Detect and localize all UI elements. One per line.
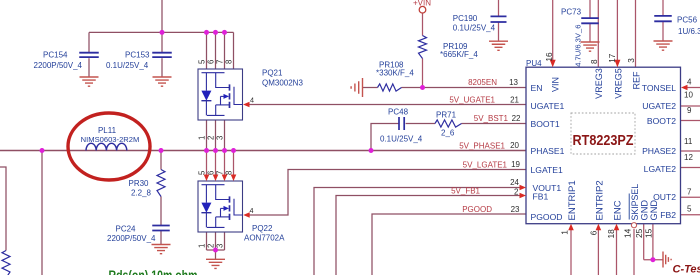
wire PQ21 pin5 top (206, 32, 208, 69)
inductor PL11 coil (86, 143, 127, 150)
junction phase PC48 (369, 148, 374, 153)
wire phase to PQ22 pin8 (233, 151, 235, 177)
svg-text:6: 6 (589, 230, 599, 235)
svg-text:2200P/50V_4: 2200P/50V_4 (34, 61, 83, 70)
wire ENTRIP1 down (570, 230, 572, 275)
wire VOUT1 route (314, 188, 520, 275)
wire 5V_FB1 route (336, 196, 520, 275)
wire PQ21 pin1 bottom (206, 120, 208, 151)
svg-text:2: 2 (514, 187, 519, 196)
svg-text:GND: GND (649, 200, 659, 221)
resistor corner bottom-left (2, 251, 10, 275)
svg-text:FB1: FB1 (533, 192, 549, 202)
junction phase p6 (213, 148, 218, 153)
transistor Q PQ21 QM3002N3 (198, 69, 243, 120)
svg-text:1: 1 (198, 244, 207, 248)
wire REF pin3 vertical (635, 0, 637, 67)
svg-text:6: 6 (207, 171, 216, 175)
wire VREG5 pin17 vertical (616, 0, 618, 62)
svg-text:PR71: PR71 (436, 111, 457, 120)
svg-text:LGATE1: LGATE1 (531, 165, 564, 175)
svg-text:VIN: VIN (550, 77, 560, 92)
wire PC73 bottom (589, 24, 591, 42)
wire +VIN circle to PR109 (422, 13, 424, 36)
wire PC56 top (662, 0, 664, 16)
svg-text:19: 19 (511, 160, 520, 169)
wire PQ21 pin8 top (corner) (233, 32, 235, 69)
svg-text:PC153: PC153 (125, 51, 150, 60)
svg-text:PC73: PC73 (561, 8, 582, 17)
red highlight ellipse around PL11 (68, 113, 150, 180)
wire PQ21 pin7 top (224, 32, 226, 69)
svg-text:AON7702A: AON7702A (244, 234, 285, 243)
wire PQ21 pin2 bottom (215, 120, 217, 151)
svg-text:Rds(on) 10m ohm: Rds(on) 10m ohm (109, 268, 198, 275)
op-amp U PU4 RT8223PZ box (526, 67, 681, 224)
capacitor PC73 (581, 18, 599, 23)
capacitor PC48 (399, 117, 404, 130)
wire PC190 bottom (498, 22, 500, 41)
arrow PQ22 gate pin4 (243, 212, 250, 218)
junction EN node (420, 85, 425, 90)
svg-text:PGOOD: PGOOD (531, 212, 563, 222)
svg-text:5V_UGATE1: 5V_UGATE1 (449, 96, 495, 105)
wire PQ22 bottom join bar (207, 249, 225, 251)
arrow ENTRIP2 pin6 (596, 224, 602, 231)
junction PQ21 pin7 (222, 30, 227, 35)
wire PQ22 pin3 bottom (224, 232, 226, 250)
capacitor PC153 (152, 53, 172, 57)
wire PR108 to EN pin (8205EN) (402, 87, 527, 89)
junction phase x42 (40, 148, 45, 153)
svg-text:SKIPSEL: SKIPSEL (630, 184, 640, 221)
svg-text:13: 13 (509, 78, 518, 87)
svg-text:5V_FB1: 5V_FB1 (451, 187, 480, 196)
svg-text:ENTRIP2: ENTRIP2 (594, 180, 605, 220)
SKPSEL bubble pin14 (631, 223, 636, 228)
ground PQ22 source (206, 259, 225, 268)
dashed value box (571, 113, 635, 154)
svg-text:PQ22: PQ22 (252, 224, 273, 233)
capacitor PC56 (654, 16, 672, 21)
wire GND pin25 down (643, 224, 645, 260)
svg-text:BOOT2: BOOT2 (647, 116, 676, 126)
transistor Q PQ22 AON7702A (198, 181, 243, 232)
ground PC73 (581, 42, 600, 51)
wire BOOT2 stub (681, 120, 700, 122)
capacitor PC24 (152, 226, 170, 231)
wire TONSEL stub (687, 87, 700, 89)
arrow FB1 pin2 (520, 193, 527, 199)
svg-text:24: 24 (510, 178, 519, 187)
svg-text:5V_BST1: 5V_BST1 (474, 114, 509, 123)
wire PQ22 pin2 bottom (215, 232, 217, 250)
svg-text:1: 1 (559, 230, 569, 235)
svg-text:PC154: PC154 (43, 51, 68, 60)
wire VIN-top vertical into node (161, 0, 163, 32)
resistor PR109 (419, 36, 427, 59)
wire SKPSEL down (633, 229, 635, 275)
arrow TONSEL pin4 (681, 85, 688, 91)
ground PC190 (489, 41, 508, 50)
svg-text:18: 18 (606, 229, 616, 239)
wire PC153 top lead (161, 32, 163, 52)
svg-text:VREG3: VREG3 (594, 68, 604, 99)
wire PC48 left lead+drop to phase (371, 124, 399, 151)
svg-text:25: 25 (634, 228, 644, 238)
wire PGOOD route (372, 214, 526, 275)
arrow PQ22 pin5 (204, 175, 210, 182)
wire OUT2 stub (681, 196, 700, 198)
svg-text:0.1U/25V_4: 0.1U/25V_4 (453, 24, 496, 33)
wire FB2 stub (681, 214, 700, 216)
wire phase to PQ22 pin6 (215, 151, 217, 177)
ground PR108 (left) (351, 78, 362, 97)
junction PQ22 gnd (213, 248, 218, 253)
wire PQ22 pin1 bottom (206, 232, 208, 250)
svg-text:8205EN: 8205EN (468, 78, 497, 87)
svg-text:4: 4 (250, 96, 254, 105)
svg-text:12: 12 (684, 153, 693, 162)
svg-text:PHASE1: PHASE1 (531, 146, 565, 156)
wire phase to PQ22 pin5 (206, 151, 208, 177)
svg-text:2_6: 2_6 (441, 129, 455, 138)
arrow PQ21 gate pin4 (243, 102, 250, 108)
svg-text:0.1U/25V_4: 0.1U/25V_4 (380, 135, 423, 144)
svg-text:UGATE2: UGATE2 (642, 101, 676, 111)
svg-text:2: 2 (207, 244, 216, 248)
wire BOOT1 from PR71 to IC (462, 123, 527, 125)
svg-text:PC48: PC48 (388, 108, 409, 117)
svg-text:+VIN: +VIN (413, 0, 431, 7)
resistor PR71 (435, 120, 462, 127)
wire PC190 top (498, 0, 500, 16)
svg-text:16: 16 (545, 52, 554, 62)
svg-text:1: 1 (198, 136, 207, 140)
svg-text:7: 7 (687, 188, 692, 197)
junction top node (160, 30, 165, 35)
wire PC154 bottom lead (88, 58, 90, 77)
svg-text:8: 8 (225, 171, 234, 175)
wire PC24 bottom lead (160, 231, 162, 245)
svg-text:5: 5 (198, 59, 207, 64)
junction PQ21 pin6 (213, 30, 218, 35)
wire ground to PR108 (363, 87, 378, 89)
svg-text:PGOOD: PGOOD (462, 205, 492, 214)
ground PC154 (80, 77, 99, 86)
wire VIN pin16 supply (552, 0, 554, 62)
svg-text:REF: REF (631, 71, 641, 90)
svg-text:UGATE1: UGATE1 (531, 101, 565, 111)
wire PC153 bottom lead (161, 58, 163, 77)
wire 5V_UGATE1 run (249, 104, 526, 106)
svg-text:QM3002N3: QM3002N3 (262, 79, 303, 88)
arrow VREG5 pin17 (614, 60, 620, 67)
ground PC56 (654, 41, 673, 50)
junction phase p7 (222, 148, 227, 153)
svg-text:20: 20 (510, 141, 519, 150)
svg-text:PQ21: PQ21 (262, 69, 283, 78)
wire ENC down (616, 230, 618, 275)
svg-text:PL11: PL11 (98, 126, 117, 135)
svg-text:2.2_8: 2.2_8 (131, 189, 152, 198)
svg-text:FB2: FB2 (660, 210, 676, 220)
ground PC153 (153, 77, 172, 86)
wire PC154 top lead (88, 32, 90, 52)
svg-text:PU4: PU4 (526, 59, 542, 68)
svg-text:5: 5 (687, 205, 692, 214)
wire PHASE2 stub (681, 150, 700, 152)
svg-text:4: 4 (687, 78, 692, 87)
svg-text:4.7U/6.3V_6: 4.7U/6.3V_6 (574, 25, 583, 67)
wire PC73 top (589, 0, 591, 18)
capacitor PC190 (491, 16, 507, 22)
svg-text:0.1U/25V_4: 0.1U/25V_4 (106, 61, 149, 70)
svg-text:5: 5 (198, 170, 207, 175)
svg-text:2: 2 (207, 136, 216, 140)
svg-text:8: 8 (590, 59, 599, 64)
svg-text:VREG5: VREG5 (613, 68, 623, 99)
resistor PR108 (378, 84, 402, 91)
ground PC24 (152, 245, 171, 254)
svg-text:PHASE2: PHASE2 (642, 146, 676, 156)
junction phase PR30 (159, 148, 164, 153)
svg-text:17: 17 (608, 53, 617, 63)
arrow ENTRIP1 pin1 (568, 224, 574, 231)
wire PQ21 pin3 bottom (224, 120, 226, 151)
overline SKPSEL (628, 194, 630, 220)
svg-text:LGATE2: LGATE2 (644, 164, 677, 174)
arrow PQ22 pin6 (213, 175, 219, 182)
arrow PQ22 pin7 (222, 175, 228, 182)
svg-text:23: 23 (511, 205, 520, 214)
junction GND C-Test (650, 257, 655, 262)
svg-text:PC56: PC56 (677, 16, 698, 25)
resistor PR30 (157, 170, 165, 197)
svg-text:*330K/F_4: *330K/F_4 (376, 69, 414, 78)
svg-text:PR30: PR30 (128, 179, 149, 188)
svg-text:6: 6 (207, 60, 216, 64)
capacitor PC154 (79, 53, 99, 57)
svg-text:3: 3 (216, 244, 225, 248)
wire GND pin15 down (652, 224, 654, 260)
wire UGATE2 stub (681, 105, 700, 107)
wire phase line 5V_PHASE1 (0, 150, 526, 152)
svg-text:4: 4 (250, 206, 254, 215)
wire PQ22 to ground (215, 250, 217, 259)
wire PQ21 pin6 top (215, 32, 217, 69)
svg-text:14: 14 (623, 228, 633, 238)
wire phase to PQ22 pin7 (224, 151, 226, 177)
arrow VOUT1 pin24 (520, 185, 527, 191)
svg-text:5V_PHASE1: 5V_PHASE1 (459, 142, 505, 151)
svg-text:BOOT1: BOOT1 (531, 119, 560, 129)
wire PC48 to PR71 (406, 123, 435, 125)
svg-text:PC190: PC190 (453, 14, 478, 23)
wire LGATE2 stub (681, 167, 700, 169)
wire top horizontal bus y=32 (89, 31, 234, 33)
svg-text:NIMS0603-2R2M: NIMS0603-2R2M (81, 135, 140, 144)
junction phase p8 (231, 148, 236, 153)
svg-text:*665K/F_4: *665K/F_4 (440, 50, 478, 59)
svg-text:11: 11 (684, 137, 693, 146)
wire PR109 to junction (422, 59, 424, 88)
power +VIN circle (419, 6, 426, 13)
svg-text:C-Test: C-Test (673, 264, 700, 275)
svg-text:3: 3 (627, 58, 636, 63)
svg-text:5V_LGATE1: 5V_LGATE1 (463, 161, 508, 170)
svg-text:21: 21 (510, 96, 519, 105)
wire 5V_LGATE1 route (249, 170, 526, 216)
wire output sense down at x=42 (41, 151, 43, 275)
svg-text:ENTRIP1: ENTRIP1 (567, 180, 578, 220)
wire PR30 top lead (160, 151, 162, 170)
svg-text:PC24: PC24 (115, 225, 136, 234)
junction PQ21 pin5 (204, 30, 209, 35)
wire PR30-PC24 lead (160, 197, 162, 226)
wire ENTRIP2 down (597, 230, 599, 275)
svg-text:7: 7 (216, 171, 225, 175)
svg-text:3: 3 (216, 136, 225, 140)
arrow VIN pin16 (550, 60, 556, 67)
arrow ENC pin18 (614, 224, 620, 231)
svg-text:9: 9 (687, 106, 692, 115)
junction phase p5 (204, 148, 209, 153)
ground C-Test (right) (663, 252, 671, 268)
wire VREG3 pin8 vertical (597, 0, 599, 67)
svg-text:1U/6.3V_4: 1U/6.3V_4 (678, 27, 700, 36)
svg-text:22: 22 (512, 114, 521, 123)
svg-text:TONSEL: TONSEL (642, 83, 676, 93)
wire PC56 bottom (662, 22, 664, 41)
svg-text:10: 10 (684, 91, 693, 100)
svg-text:RT8223PZ: RT8223PZ (573, 133, 634, 149)
svg-text:8: 8 (225, 60, 234, 64)
svg-text:EN: EN (531, 83, 543, 93)
svg-text:15: 15 (644, 228, 654, 238)
svg-text:2200P/50V_4: 2200P/50V_4 (107, 234, 156, 243)
svg-text:7: 7 (216, 60, 225, 64)
wire left edge jog to R (0, 167, 6, 251)
arrow PQ22 pin8 (231, 175, 237, 182)
wire GND join to C-Test ground (644, 259, 663, 261)
svg-text:ENC: ENC (613, 200, 624, 220)
